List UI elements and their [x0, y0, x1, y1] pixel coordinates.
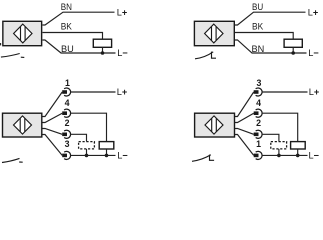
svg-text:L−: L−	[309, 151, 320, 161]
svg-text:L−: L−	[117, 151, 128, 161]
svg-text:3: 3	[65, 139, 70, 149]
svg-text:BN: BN	[252, 44, 265, 54]
svg-text:BK: BK	[252, 22, 264, 32]
svg-text:2: 2	[65, 118, 70, 128]
svg-text:L−: L−	[308, 48, 319, 58]
svg-text:1: 1	[256, 139, 261, 149]
svg-text:1: 1	[65, 78, 70, 88]
svg-text:L+: L+	[117, 7, 128, 17]
svg-text:2: 2	[256, 118, 261, 128]
svg-text:BU: BU	[252, 2, 263, 12]
svg-text:L−: L−	[117, 48, 128, 58]
svg-text:3: 3	[257, 78, 262, 88]
svg-text:4: 4	[65, 98, 70, 108]
svg-text:L+: L+	[308, 7, 319, 17]
svg-text:L+: L+	[117, 87, 128, 97]
svg-text:L+: L+	[309, 87, 320, 97]
svg-text:4: 4	[256, 98, 261, 108]
svg-text:BK: BK	[61, 22, 73, 32]
svg-text:BU: BU	[61, 44, 74, 54]
svg-text:BN: BN	[61, 2, 72, 12]
